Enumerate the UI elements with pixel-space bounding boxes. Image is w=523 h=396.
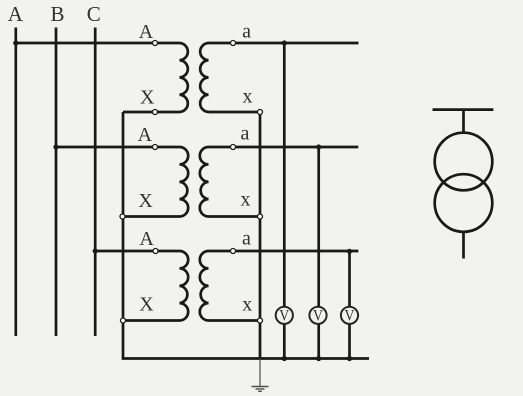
svg-text:X: X (139, 294, 154, 316)
svg-text:X: X (140, 87, 155, 109)
svg-text:A: A (8, 2, 24, 26)
svg-text:x: x (242, 294, 252, 316)
svg-text:V: V (345, 307, 355, 324)
svg-text:V: V (279, 307, 289, 324)
svg-text:B: B (50, 2, 64, 26)
svg-text:A: A (139, 228, 154, 250)
svg-text:A: A (138, 124, 153, 146)
svg-text:x: x (243, 86, 253, 108)
svg-text:X: X (138, 190, 153, 212)
svg-text:A: A (139, 21, 154, 43)
svg-text:a: a (241, 123, 250, 145)
svg-text:C: C (87, 2, 101, 26)
svg-text:x: x (241, 189, 251, 211)
svg-text:a: a (242, 228, 251, 250)
svg-text:a: a (242, 20, 251, 42)
svg-text:V: V (313, 307, 323, 324)
